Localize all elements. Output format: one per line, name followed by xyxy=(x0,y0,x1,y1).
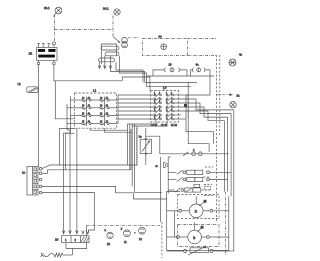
left rail for rows xyxy=(167,157,169,194)
bundle elbow 1 xyxy=(116,62,143,82)
dash-dot stub cluster to box xyxy=(128,37,140,39)
svg-text:14: 14 xyxy=(88,113,90,115)
row 2 heater xyxy=(168,177,227,181)
dash-dot arrow 2x xyxy=(216,93,233,96)
svg-text:b: b xyxy=(193,235,196,240)
svg-text:24: 24 xyxy=(159,35,163,39)
U left edge 2 xyxy=(66,133,75,170)
svg-text:13: 13 xyxy=(82,97,84,99)
wire xyxy=(188,82,209,151)
svg-text:14: 14 xyxy=(88,105,90,107)
svg-text:13: 13 xyxy=(82,105,84,107)
svg-text:2: 2 xyxy=(75,238,77,242)
svg-text:2: 2 xyxy=(159,101,160,103)
wire bus tops to L2 bottom xyxy=(127,122,167,126)
terminal wire t3 staircase xyxy=(42,186,167,199)
svg-text:1: 1 xyxy=(166,109,167,111)
svg-text:1: 1 xyxy=(65,238,67,242)
L2 contacts col1 xyxy=(154,93,161,120)
svg-text:L1: L1 xyxy=(93,89,97,93)
wire interconnect rail xyxy=(117,95,119,123)
long drops from L1 to fuse box xyxy=(64,132,71,134)
wire K2 top bridge xyxy=(146,136,160,154)
wire xyxy=(186,76,214,144)
svg-text:24.1: 24.1 xyxy=(103,7,109,11)
nested U wire 1 xyxy=(42,126,137,169)
wire B transformer right secondary down then right xyxy=(54,65,122,81)
svg-text:13: 13 xyxy=(82,121,84,123)
svg-text:21 22: 21 22 xyxy=(161,124,168,127)
oo connector row xyxy=(160,152,229,156)
w bracket terminal xyxy=(156,163,169,169)
routing below wire19 xyxy=(147,76,192,86)
svg-text:LP: LP xyxy=(163,86,167,90)
wire L1 left feeders xyxy=(67,96,82,133)
wire loop U2 left xyxy=(191,70,193,76)
svg-text:14: 14 xyxy=(106,121,108,123)
drop to cable xyxy=(72,249,74,256)
main wire y76 xyxy=(147,75,215,77)
svg-text:13: 13 xyxy=(100,97,102,99)
dash-dot vertical in motor box xyxy=(225,192,227,256)
motor1 dashed zone xyxy=(178,195,220,219)
svg-text:1: 1 xyxy=(154,117,155,119)
svg-text:2: 2 xyxy=(171,117,172,119)
connector 19 xyxy=(165,68,180,73)
nested U wire 2 xyxy=(42,129,131,173)
svg-text:13: 13 xyxy=(82,113,84,115)
enclosure dashed vertical 1 xyxy=(216,55,218,223)
svg-text:22: 22 xyxy=(107,242,110,246)
svg-text:1: 1 xyxy=(154,101,155,103)
cable loop stadium 2 xyxy=(105,52,119,56)
junction dot xyxy=(134,232,136,234)
svg-text:19: 19 xyxy=(169,63,173,67)
svg-text:13: 13 xyxy=(100,105,102,107)
K2 feed wires xyxy=(145,128,147,139)
inner link vertical xyxy=(173,211,175,237)
svg-text:1x: 1x xyxy=(139,237,142,241)
svg-text:1R: 1R xyxy=(29,52,33,56)
dash-dot drop xyxy=(86,225,88,235)
bundle elbow 2 xyxy=(120,56,147,76)
wire A transformer left secondary down xyxy=(38,65,40,167)
indicator y' xyxy=(124,230,131,237)
wire bottom join xyxy=(229,250,234,252)
wire L1 bottom exit 2 xyxy=(105,128,133,132)
svg-text:w: w xyxy=(156,164,159,168)
dash-dot link vertical from lamp 24.1 xyxy=(112,16,114,37)
wire loop U1 left xyxy=(153,70,164,76)
svg-text:13: 13 xyxy=(100,121,102,123)
flexible cable squiggle xyxy=(41,253,73,257)
L2 contacts col2 xyxy=(166,93,173,120)
svg-text:1: 1 xyxy=(154,93,155,95)
svg-text:1s: 1s xyxy=(22,171,26,175)
svg-text:14: 14 xyxy=(106,105,108,107)
U left edge 1 xyxy=(60,128,75,165)
variable resistor bottom xyxy=(167,246,229,255)
dash-dot link horizontal xyxy=(55,29,114,31)
svg-text:x: x xyxy=(105,228,107,232)
wire B branch up to bundle xyxy=(55,81,74,119)
screw symbol mid right xyxy=(230,102,236,108)
svg-text:14: 14 xyxy=(88,121,90,123)
svg-text:2: 2 xyxy=(159,109,160,111)
lamp E24.1 xyxy=(114,9,120,15)
motor enclosure outer box xyxy=(167,192,229,251)
dash extension right of box xyxy=(188,55,217,57)
motor2 dashdot zone xyxy=(178,225,220,247)
terminal wire t4 xyxy=(42,193,94,234)
indicator x' xyxy=(107,232,113,238)
junction block xyxy=(184,104,187,107)
wire vertical to dashdot xyxy=(160,157,162,222)
svg-text:y: y xyxy=(121,227,123,231)
connector cluster 24 : twin sockets xyxy=(113,37,127,48)
L1 contacts col1 xyxy=(82,98,91,126)
dash-dot enclosure box 24 xyxy=(142,39,187,56)
svg-text:2x: 2x xyxy=(237,94,241,98)
dash fragments right of rows xyxy=(204,184,212,186)
screw symbol top right xyxy=(229,59,236,66)
cluster drop wires with arrowheads xyxy=(98,56,112,69)
motor M1 xyxy=(167,196,229,217)
contactor K2 xyxy=(140,138,151,154)
cable loop stadium 3 xyxy=(99,58,115,62)
svg-text:1c: 1c xyxy=(139,135,143,139)
indicator 1x xyxy=(139,227,146,234)
svg-text:L2: L2 xyxy=(18,82,22,86)
connector 4a xyxy=(193,68,206,73)
wire loop U2 right xyxy=(205,70,211,76)
dash-dot horizontal bottom xyxy=(87,224,162,226)
cluster frame xyxy=(102,44,117,64)
wire bundle L1 area to L2 rows xyxy=(118,95,154,119)
relay block L2 xyxy=(150,90,178,122)
svg-text:2: 2 xyxy=(159,93,160,95)
svg-text:14: 14 xyxy=(106,97,108,99)
L1 contacts col2 xyxy=(100,98,109,126)
svg-text:2: 2 xyxy=(171,93,172,95)
row 1 heater xyxy=(168,170,231,174)
svg-text:2: 2 xyxy=(171,101,172,103)
svg-text:10: 10 xyxy=(55,238,59,242)
svg-text:1: 1 xyxy=(154,109,155,111)
svg-text:4: 4 xyxy=(193,148,195,152)
wire arrows into fuse box xyxy=(62,231,65,234)
svg-text:1: 1 xyxy=(166,93,167,95)
fuse box 10 xyxy=(62,236,90,243)
fuse L2 stub xyxy=(27,87,38,93)
svg-text:1: 1 xyxy=(166,117,167,119)
wire bus verticals middle xyxy=(127,124,161,192)
dash-dot link vertical from lamp 23.1 xyxy=(54,15,56,42)
svg-text:14: 14 xyxy=(106,113,108,115)
svg-text:11: 11 xyxy=(124,240,127,244)
dashed vertical bottom mid xyxy=(161,222,163,258)
small aux rect xyxy=(194,184,200,187)
row 3 heater xyxy=(168,188,210,192)
svg-text:1: 1 xyxy=(166,101,167,103)
svg-text:b: b xyxy=(195,209,198,214)
terminal strip X1 xyxy=(27,167,42,196)
svg-text:4x: 4x xyxy=(239,53,243,57)
lamp E23.1 xyxy=(53,7,62,17)
svg-text:4a: 4a xyxy=(196,63,200,67)
wire L1 bottom exit 1 xyxy=(90,128,127,130)
wire L1 to L2 cross wires xyxy=(91,100,118,123)
enclosure dashed vertical 2 xyxy=(219,55,221,135)
svg-text:13 14: 13 14 xyxy=(151,124,158,127)
cable loop stadium 1 xyxy=(101,46,119,50)
svg-text:31 32: 31 32 xyxy=(171,124,178,127)
svg-text:13: 13 xyxy=(100,113,102,115)
svg-text:14: 14 xyxy=(88,97,90,99)
wire loop U1 right xyxy=(180,70,187,76)
terminal circle on transformer top pin xyxy=(53,42,56,45)
svg-text:2: 2 xyxy=(159,117,160,119)
svg-text:2: 2 xyxy=(171,109,172,111)
transformer T1 xyxy=(37,44,58,65)
wire L2 right exits to right bus corners xyxy=(173,95,234,121)
bundle elbow 3 xyxy=(122,77,150,90)
fuse box bottom bracket xyxy=(66,243,87,249)
wire xyxy=(145,81,197,83)
wire xyxy=(111,68,145,82)
instrument circle 24 xyxy=(161,44,167,50)
svg-text:23.1: 23.1 xyxy=(44,6,50,10)
L1 internal rails xyxy=(86,97,88,127)
motor M2 xyxy=(167,223,229,244)
relay block L1 xyxy=(75,93,117,128)
wire right bus verticals xyxy=(224,110,233,251)
